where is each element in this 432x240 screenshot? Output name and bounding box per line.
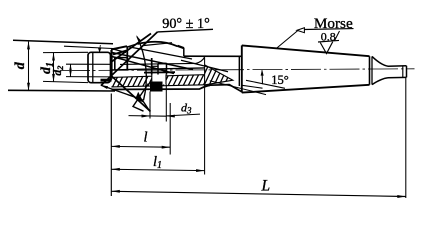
svg-text:90° ± 1°: 90° ± 1° [162, 16, 210, 32]
svg-text:15°: 15° [271, 73, 289, 87]
svg-text:L: L [261, 177, 271, 194]
svg-text:l: l [144, 130, 148, 146]
svg-text:d: d [13, 61, 28, 69]
svg-text:0.8: 0.8 [321, 29, 336, 43]
